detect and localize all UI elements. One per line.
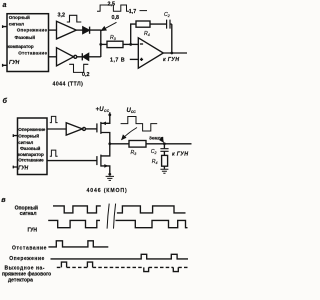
svg-text:3,2: 3,2 <box>58 12 66 18</box>
svg-text:в: в <box>1 195 6 204</box>
svg-text:4044 (ТТЛ): 4044 (ТТЛ) <box>53 82 84 88</box>
svg-text:Опорный: Опорный <box>9 14 30 20</box>
svg-text:R4: R4 <box>152 159 158 165</box>
svg-text:ГУН: ГУН <box>27 227 37 233</box>
svg-text:ГУН: ГУН <box>18 166 28 172</box>
svg-text:компаратор: компаратор <box>8 44 34 49</box>
svg-text:компаратор: компаратор <box>18 152 44 157</box>
svg-text:R3: R3 <box>110 35 116 41</box>
svg-text:С2: С2 <box>164 12 170 18</box>
svg-text:0,2: 0,2 <box>82 72 90 78</box>
svg-text:Отставание: Отставание <box>18 157 44 162</box>
svg-text:UCC: UCC <box>127 108 137 114</box>
svg-text:а: а <box>3 0 7 9</box>
svg-text:1,7: 1,7 <box>129 9 137 15</box>
svg-text:2,5: 2,5 <box>108 2 116 8</box>
svg-text:сигнал: сигнал <box>18 140 33 145</box>
svg-text:R3: R3 <box>131 150 137 156</box>
svg-text:R4: R4 <box>144 31 150 37</box>
svg-text:Отставание: Отставание <box>12 246 47 252</box>
svg-text:Опережение: Опережение <box>17 28 48 33</box>
svg-text:детектора: детектора <box>8 277 33 283</box>
svg-text:Земля: Земля <box>149 135 164 140</box>
svg-text:Отставание: Отставание <box>18 51 47 56</box>
svg-text:Фазовый: Фазовый <box>15 34 36 40</box>
svg-text:сигнал: сигнал <box>9 21 24 26</box>
svg-text:Опережение: Опережение <box>9 256 45 262</box>
svg-text:4046 (КМОП): 4046 (КМОП) <box>87 188 128 194</box>
svg-text:сигнал: сигнал <box>20 211 37 217</box>
svg-text:Опережение: Опережение <box>18 127 45 132</box>
svg-text:к ГУН: к ГУН <box>163 57 179 63</box>
svg-text:б: б <box>3 96 8 105</box>
svg-text:+UCC: +UCC <box>96 107 110 113</box>
svg-text:С2: С2 <box>151 149 157 155</box>
svg-text:Фазовый: Фазовый <box>20 145 41 151</box>
svg-text:0,8: 0,8 <box>112 15 120 21</box>
svg-text:1,7 В: 1,7 В <box>110 58 125 64</box>
svg-text:Опорный: Опорный <box>18 133 39 139</box>
svg-text:ГУН: ГУН <box>9 60 20 66</box>
svg-text:к ГУН: к ГУН <box>172 151 188 157</box>
svg-text:Выходное на-: Выходное на- <box>5 265 45 271</box>
